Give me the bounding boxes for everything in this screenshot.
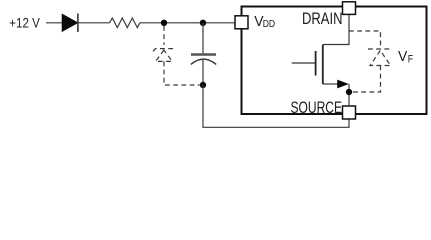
svg-text:V: V xyxy=(398,49,408,65)
zener TVS diode DZ (dashed, optional) xyxy=(153,46,175,62)
wire supply to diode anode xyxy=(46,22,62,24)
label DRAIN xyxy=(302,10,343,28)
pin VDD square xyxy=(235,16,248,29)
wire internal source (MOSFET to pin) xyxy=(348,84,350,106)
node +12 V supply label xyxy=(9,15,40,31)
svg-text:+12 V: +12 V xyxy=(9,15,40,31)
label VF xyxy=(398,49,413,65)
pin DRAIN square xyxy=(343,2,356,15)
wire resistor to VDD pin xyxy=(140,22,236,24)
resistor R1 xyxy=(110,18,140,28)
diode D1 input blocking diode xyxy=(62,14,78,33)
node junction dot A (zener branch) xyxy=(161,20,167,26)
wire capacitor bottom lead xyxy=(202,60,204,85)
IC U1 body (smart diode controller) xyxy=(242,7,427,115)
svg-text:DD: DD xyxy=(263,18,276,30)
label VDD xyxy=(254,14,275,30)
wire dashed body-diode top branch xyxy=(349,31,381,47)
svg-text:SOURCE: SOURCE xyxy=(291,99,343,117)
svg-text:F: F xyxy=(408,53,414,65)
wire diode cathode to resistor xyxy=(78,22,110,24)
node source junction dot xyxy=(346,89,352,95)
wire capacitor top lead xyxy=(202,23,204,53)
node junction dot B (capacitor branch) xyxy=(200,20,206,26)
wire ground return (cap bottom to SOURCE pin) xyxy=(203,85,349,127)
wire internal drain (pin to MOSFET) xyxy=(323,15,349,45)
svg-text:DRAIN: DRAIN xyxy=(302,10,343,28)
pin SOURCE square xyxy=(343,106,356,119)
transistor Q1 internal N-MOSFET xyxy=(292,45,349,89)
wire dashed zener bottom lead xyxy=(164,61,200,85)
diode body diode (dashed) with VF label xyxy=(368,49,393,66)
label SOURCE xyxy=(291,99,343,117)
capacitor C1 (polarized) xyxy=(191,55,216,65)
wire dashed body-diode bottom branch xyxy=(352,66,381,93)
node junction dot C (zener return joins cap) xyxy=(200,82,206,88)
wire dashed zener top lead xyxy=(163,26,165,45)
